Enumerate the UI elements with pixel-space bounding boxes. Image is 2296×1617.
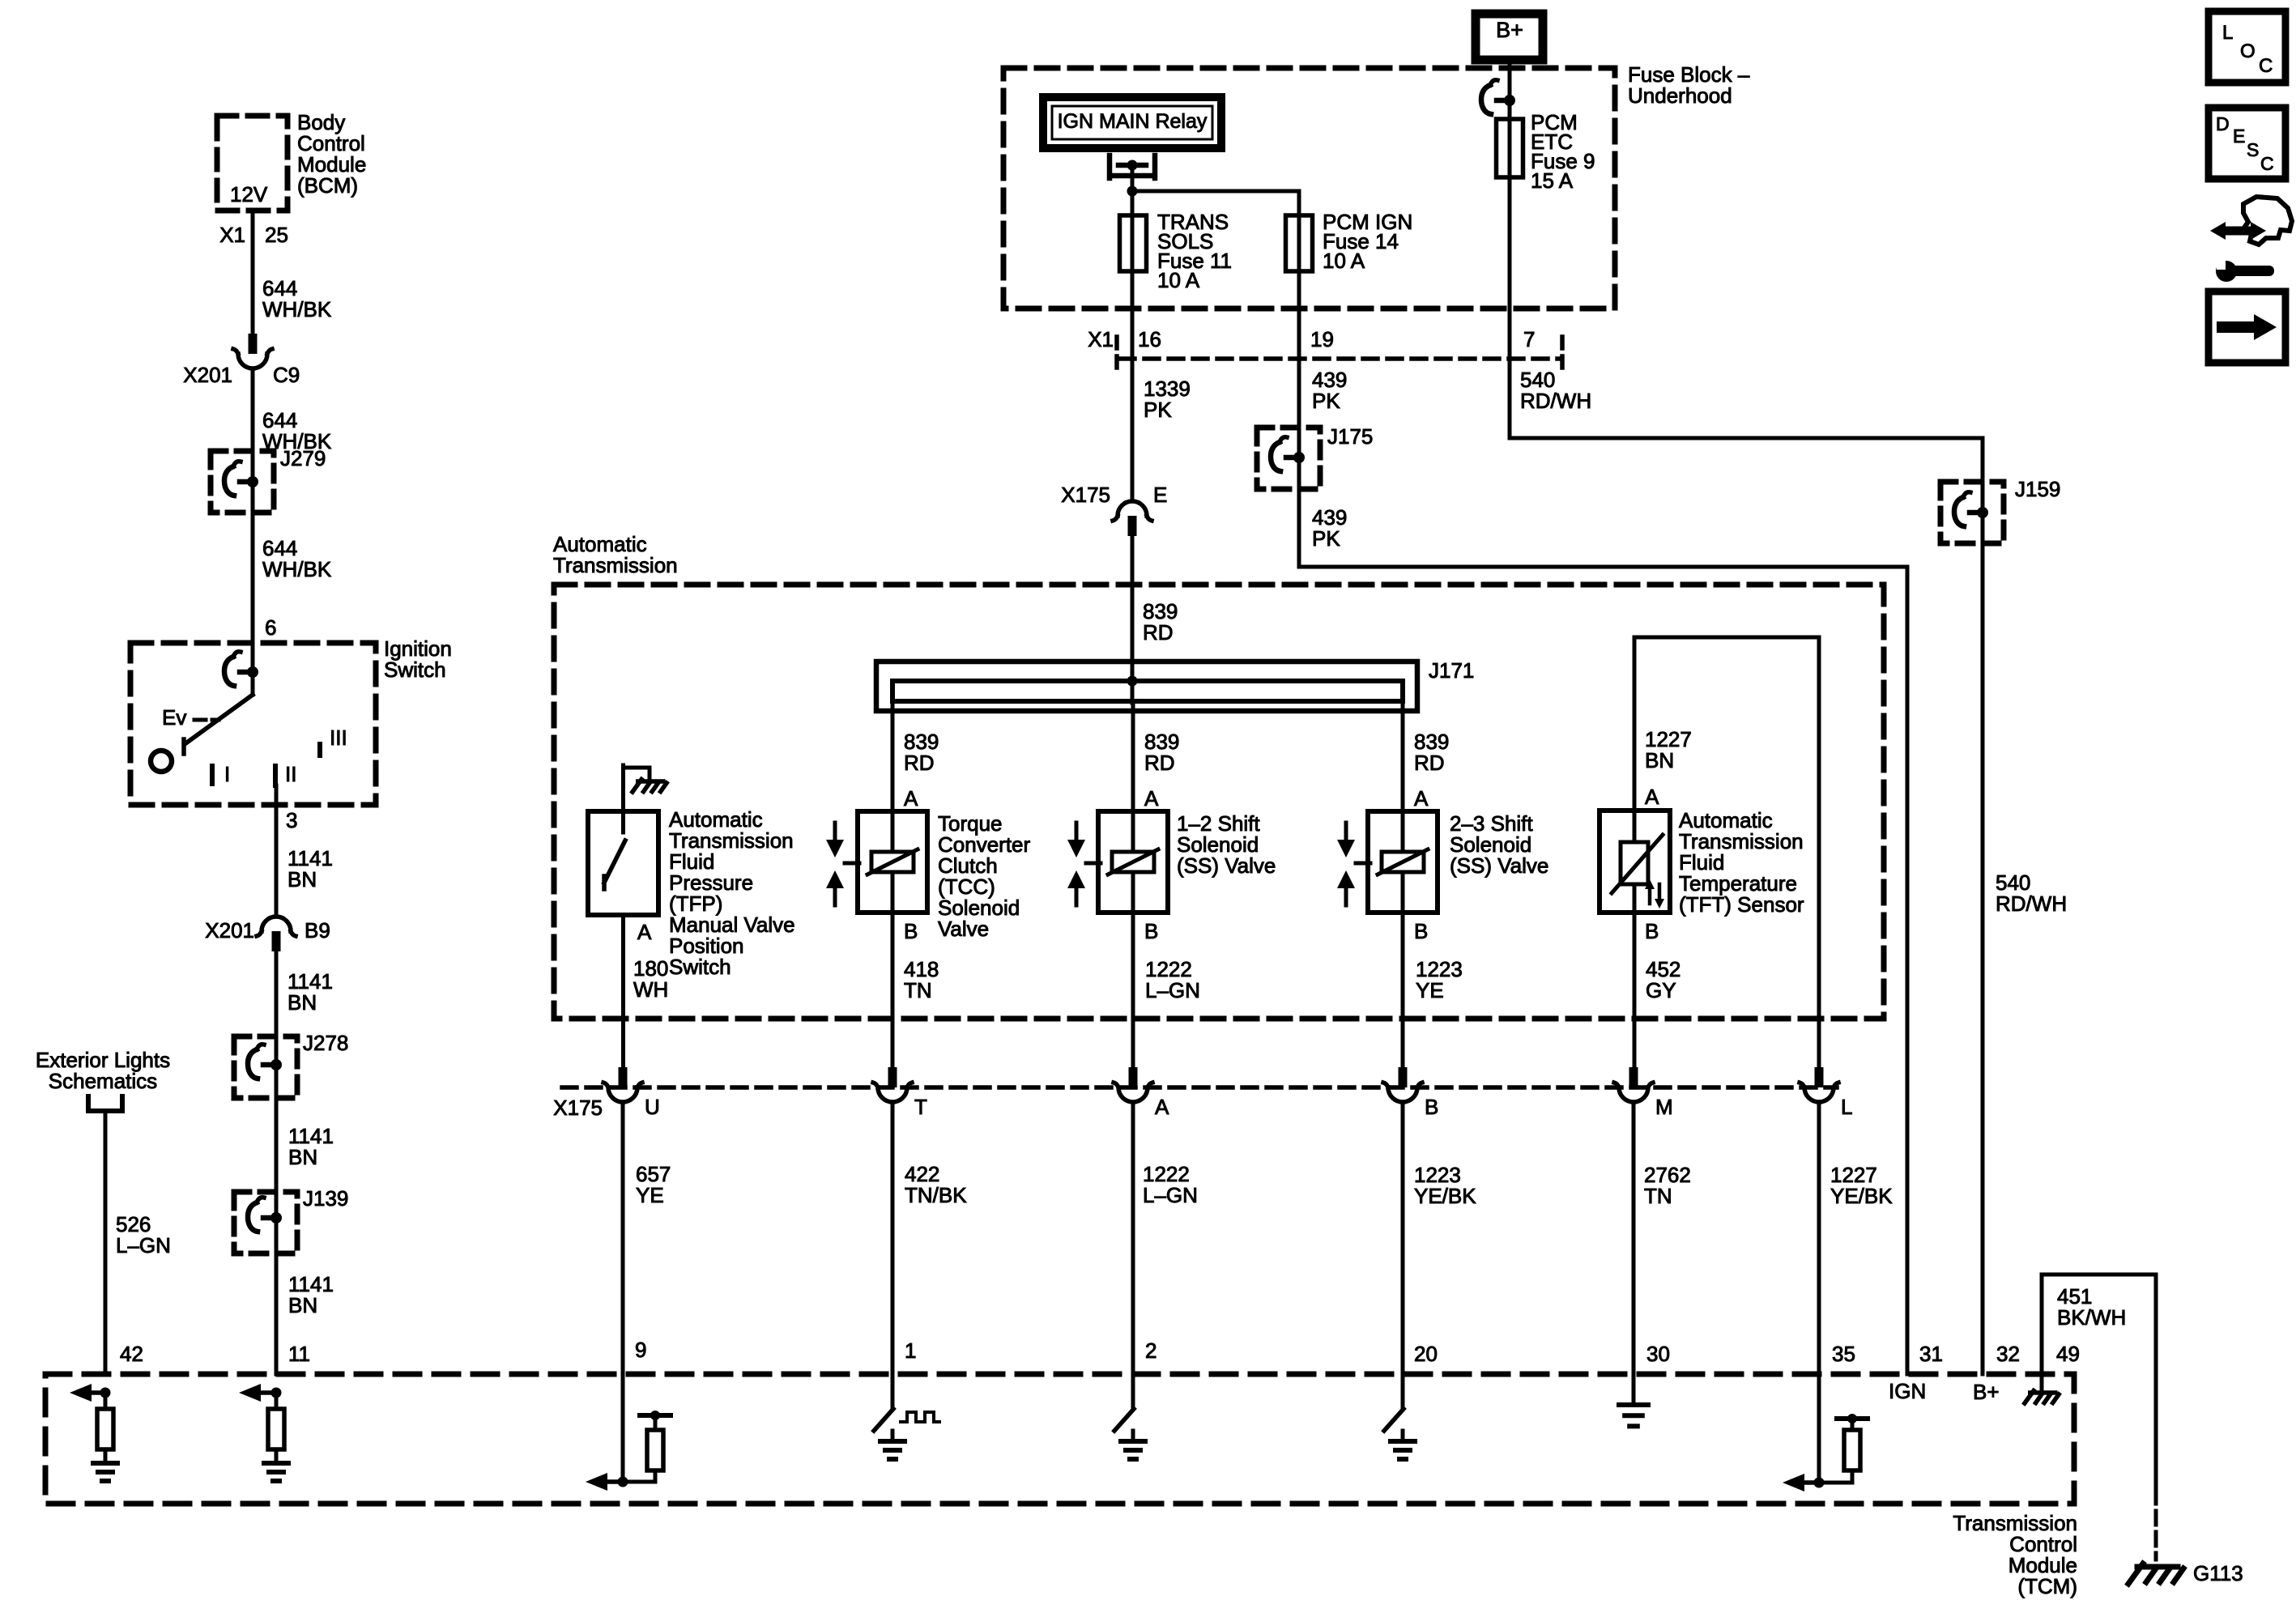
svg-text:1: 1	[905, 1338, 916, 1363]
svg-text:32: 32	[1996, 1342, 2020, 1366]
wire from relay to TRANS SOLS fuse and PCM IGN fuse	[1132, 191, 1299, 275]
svg-text:TN: TN	[1644, 1184, 1672, 1208]
svg-text:A: A	[1414, 786, 1429, 811]
ground G113	[2128, 1561, 2243, 1585]
svg-text:B+: B+	[1496, 18, 1523, 42]
svg-text:YE/BK: YE/BK	[1830, 1184, 1893, 1208]
fuse PCM ETC Fuse 9 15 A	[1497, 110, 1595, 438]
svg-text:L–GN: L–GN	[1145, 978, 1200, 1002]
svg-text:E: E	[2233, 126, 2245, 147]
svg-text:16: 16	[1138, 327, 1161, 351]
svg-text:C: C	[2259, 55, 2273, 77]
TCC solenoid valve	[826, 701, 1030, 1067]
svg-text:25: 25	[265, 223, 288, 247]
icon: LOC reference box	[2209, 11, 2285, 83]
svg-text:15 A: 15 A	[1531, 168, 1574, 193]
wire 839 RD from E to splice J171	[1132, 536, 1178, 703]
svg-text:PK: PK	[1144, 398, 1172, 422]
splice J175	[1257, 424, 1373, 489]
icon: DESC reference box	[2209, 108, 2285, 179]
svg-text:31: 31	[1919, 1342, 1943, 1366]
svg-text:Underhood: Underhood	[1628, 83, 1732, 108]
wire 1141 BN from ignition switch pin 3 to connector B9	[276, 785, 333, 917]
splice J171 (solenoid feed bus)	[876, 658, 1474, 711]
svg-text:D: D	[2216, 113, 2230, 134]
wire 1141 BN from B9 to splice J278	[276, 951, 333, 1036]
svg-text:X175: X175	[1061, 483, 1110, 507]
svg-text:(BCM): (BCM)	[297, 173, 358, 198]
svg-text:BN: BN	[288, 1145, 317, 1169]
svg-text:X175: X175	[553, 1096, 603, 1120]
svg-text:B: B	[904, 919, 918, 943]
svg-text:7: 7	[1523, 327, 1535, 351]
svg-text:BN: BN	[288, 990, 317, 1015]
2-3 shift solenoid (SS) valve	[1337, 701, 1548, 1067]
svg-text:(TFT) Sensor: (TFT) Sensor	[1679, 892, 1804, 917]
wire 2762 TN from X175 M to TCM pin 30	[1634, 1103, 1691, 1403]
automatic transmission box	[553, 532, 1884, 1019]
svg-text:IGN MAIN Relay: IGN MAIN Relay	[1058, 110, 1208, 133]
svg-text:J159: J159	[2015, 477, 2060, 501]
wire 1141 BN from J278 to splice J139	[276, 1098, 334, 1192]
svg-text:A: A	[637, 920, 652, 944]
svg-text:(TCM): (TCM)	[2017, 1574, 2077, 1598]
svg-text:YE: YE	[636, 1183, 664, 1207]
ignition switch internals (wiper from pin 6, contacts I II III)	[151, 643, 347, 786]
wire 644 WH/BK from BCM pin 25 (connector X1)	[219, 211, 332, 334]
svg-text:M: M	[1655, 1095, 1673, 1119]
wire 451 BK/WH from TCM pin 49 to ground G113	[2042, 1274, 2156, 1560]
TFT sensor	[1600, 637, 1819, 1067]
svg-text:RD: RD	[1143, 620, 1174, 645]
TCM internal: pin 49 chassis ground	[2025, 1374, 2059, 1403]
svg-text:BN: BN	[288, 1293, 317, 1317]
svg-text:12V: 12V	[230, 182, 268, 206]
svg-text:RD/WH: RD/WH	[1520, 389, 1591, 413]
svg-text:X201: X201	[205, 918, 254, 943]
svg-text:A: A	[1144, 786, 1159, 811]
svg-text:RD/WH: RD/WH	[1996, 891, 2067, 916]
relay: IGN MAIN Relay	[1043, 97, 1221, 148]
module box: Transmission Control Module (TCM)	[45, 1374, 2077, 1598]
relay output terminal	[1110, 155, 1155, 197]
connector X1 row	[1088, 327, 1562, 368]
wire 1227 YE/BK from X175 L to TCM pin 35	[1819, 1103, 1893, 1483]
svg-text:T: T	[914, 1095, 927, 1119]
svg-text:L–GN: L–GN	[1143, 1183, 1198, 1207]
svg-text:Ev: Ev	[162, 705, 186, 730]
splice below B+	[1481, 80, 1515, 182]
svg-text:GY: GY	[1646, 978, 1676, 1002]
splice J159	[1940, 477, 2060, 543]
svg-text:6: 6	[265, 615, 276, 640]
svg-text:X201: X201	[183, 363, 232, 387]
TCM internal: pin 35 input (arrow, pull-up resistor)	[1783, 1414, 1868, 1491]
svg-text:I: I	[224, 762, 230, 786]
svg-text:BN: BN	[288, 867, 317, 891]
svg-text:WH/BK: WH/BK	[262, 557, 332, 581]
wire 1223 YE/BK from X175 B to TCM pin 20	[1403, 1103, 1476, 1409]
svg-text:WH: WH	[633, 977, 668, 1002]
svg-text:20: 20	[1414, 1342, 1438, 1366]
svg-text:B: B	[1414, 919, 1428, 943]
connector X201 pin C9	[183, 334, 300, 387]
svg-text:G113: G113	[2193, 1561, 2243, 1585]
wire 1222 L-GN from X175 A to TCM pin 2	[1133, 1103, 1198, 1409]
svg-text:B9: B9	[305, 918, 330, 943]
svg-text:O: O	[2240, 40, 2256, 62]
svg-text:B+: B+	[1973, 1380, 2000, 1404]
svg-text:J139: J139	[303, 1186, 348, 1211]
svg-text:J175: J175	[1327, 424, 1373, 449]
svg-text:10 A: 10 A	[1323, 249, 1365, 273]
svg-text:III: III	[330, 726, 347, 750]
TCM internal: pin 42 input (arrow, resistor, ground)	[70, 1384, 117, 1481]
svg-text:B: B	[1144, 919, 1158, 943]
svg-text:B: B	[1645, 919, 1659, 943]
svg-text:RD: RD	[1144, 751, 1175, 775]
connector X201 pin B9	[205, 917, 330, 951]
svg-text:S: S	[2247, 139, 2259, 160]
splice J278	[234, 1031, 348, 1098]
svg-text:YE/BK: YE/BK	[1414, 1184, 1476, 1208]
svg-text:2: 2	[1145, 1338, 1157, 1363]
svg-text:A: A	[1645, 785, 1659, 809]
svg-text:35: 35	[1832, 1342, 1855, 1366]
TCM internal: pin 11 input (arrow, resistor, ground)	[239, 1384, 288, 1481]
module box: Body Control Module (BCM)	[217, 110, 366, 211]
wire 1141 BN from J139 to TCM pin 11	[276, 1253, 334, 1374]
svg-text:19: 19	[1310, 327, 1334, 351]
connector X175 pin E	[1061, 483, 1167, 536]
svg-text:X1: X1	[219, 223, 245, 247]
fuse PCM IGN Fuse 14 10 A	[1286, 210, 1413, 429]
wire 657 YE from X175 U to TCM pin 9	[623, 1103, 671, 1482]
wire 526 L-GN to TCM pin 42	[105, 1111, 171, 1374]
svg-text:Valve: Valve	[938, 917, 989, 941]
svg-text:E: E	[1153, 483, 1167, 507]
svg-text:C9: C9	[273, 363, 300, 387]
wire 439 PK fuse 14 to splice J175	[1312, 368, 1347, 413]
svg-text:PK: PK	[1312, 389, 1340, 413]
svg-text:RD: RD	[904, 751, 935, 775]
wire 644 WH/BK from C9 to splice J279	[253, 368, 332, 453]
svg-text:L–GN: L–GN	[116, 1233, 171, 1257]
TCM internal: pin 9 input (arrow, pull-up resistor)	[586, 1411, 671, 1491]
svg-text:L: L	[1841, 1095, 1852, 1119]
svg-text:A: A	[904, 786, 918, 811]
wire 1339 PK fuse 11 to connector X175 E	[1144, 377, 1191, 422]
svg-text:42: 42	[120, 1342, 143, 1366]
fuse TRANS SOLS Fuse 11 10 A	[1120, 210, 1233, 501]
svg-text:U: U	[645, 1095, 660, 1119]
svg-text:Switch: Switch	[669, 955, 731, 979]
svg-text:TN/BK: TN/BK	[905, 1183, 967, 1207]
svg-text:B: B	[1425, 1095, 1438, 1119]
connector X175 row	[553, 1067, 1852, 1120]
svg-text:PK: PK	[1312, 526, 1340, 551]
ignition switch box	[130, 636, 452, 805]
TCM internal: pin 30 ground	[1619, 1405, 1648, 1426]
svg-text:(SS) Valve: (SS) Valve	[1177, 853, 1276, 878]
svg-text:RD: RD	[1414, 751, 1445, 775]
svg-text:X1: X1	[1088, 327, 1114, 351]
icon: vehicle repair (arrow, car, wrench)	[2210, 197, 2292, 282]
icon: forward arrow box	[2209, 291, 2285, 363]
svg-text:J171: J171	[1429, 658, 1474, 683]
svg-text:TN: TN	[904, 978, 932, 1002]
off-page reference: Exterior Lights Schematics	[36, 1048, 170, 1111]
svg-text:YE: YE	[1416, 978, 1444, 1002]
TCM internal: pin 2 driver (switch, ground)	[1114, 1409, 1145, 1459]
svg-text:Switch: Switch	[384, 657, 446, 682]
fuse block - underhood box	[1003, 62, 1750, 309]
svg-text:IGN: IGN	[1889, 1379, 1926, 1403]
svg-text:11: 11	[288, 1342, 310, 1366]
splice J279	[211, 446, 326, 513]
svg-text:30: 30	[1646, 1342, 1670, 1366]
svg-text:C: C	[2260, 153, 2274, 174]
wire 422 TN/BK from X175 T to TCM pin 1	[892, 1103, 967, 1409]
svg-text:A: A	[1155, 1095, 1169, 1119]
svg-text:J279: J279	[280, 446, 326, 470]
TCM internal: pin 1 driver (switch, PWM, ground)	[874, 1409, 939, 1459]
svg-text:(SS) Valve: (SS) Valve	[1450, 853, 1548, 878]
svg-text:3: 3	[286, 808, 297, 832]
svg-text:BN: BN	[1645, 748, 1674, 772]
svg-text:Schematics: Schematics	[49, 1069, 157, 1093]
svg-text:L: L	[2222, 22, 2233, 44]
wire 439 PK from J175 to TCM pin 31 (IGN)	[1299, 489, 1943, 1403]
svg-text:J278: J278	[303, 1031, 348, 1055]
B+ terminal	[1476, 14, 1543, 119]
TCM internal: pin 20 driver (switch, ground)	[1384, 1409, 1415, 1459]
wire 644 WH/BK from J279 to ignition switch pin 6	[253, 513, 332, 643]
svg-text:9: 9	[635, 1338, 646, 1362]
1-2 shift solenoid (SS) valve	[1067, 701, 1276, 1067]
svg-text:II: II	[285, 762, 296, 786]
svg-text:WH/BK: WH/BK	[262, 297, 332, 321]
TFP manual valve position switch	[588, 765, 795, 1067]
splice J139	[234, 1186, 348, 1253]
svg-text:10 A: 10 A	[1157, 268, 1200, 292]
svg-text:Transmission: Transmission	[553, 553, 678, 577]
wire 540 RD/WH fuse 9 to J159 and TCM pin 32 (B+)	[1510, 368, 2067, 1404]
svg-text:49: 49	[2056, 1342, 2080, 1366]
svg-text:BK/WH: BK/WH	[2057, 1305, 2126, 1330]
